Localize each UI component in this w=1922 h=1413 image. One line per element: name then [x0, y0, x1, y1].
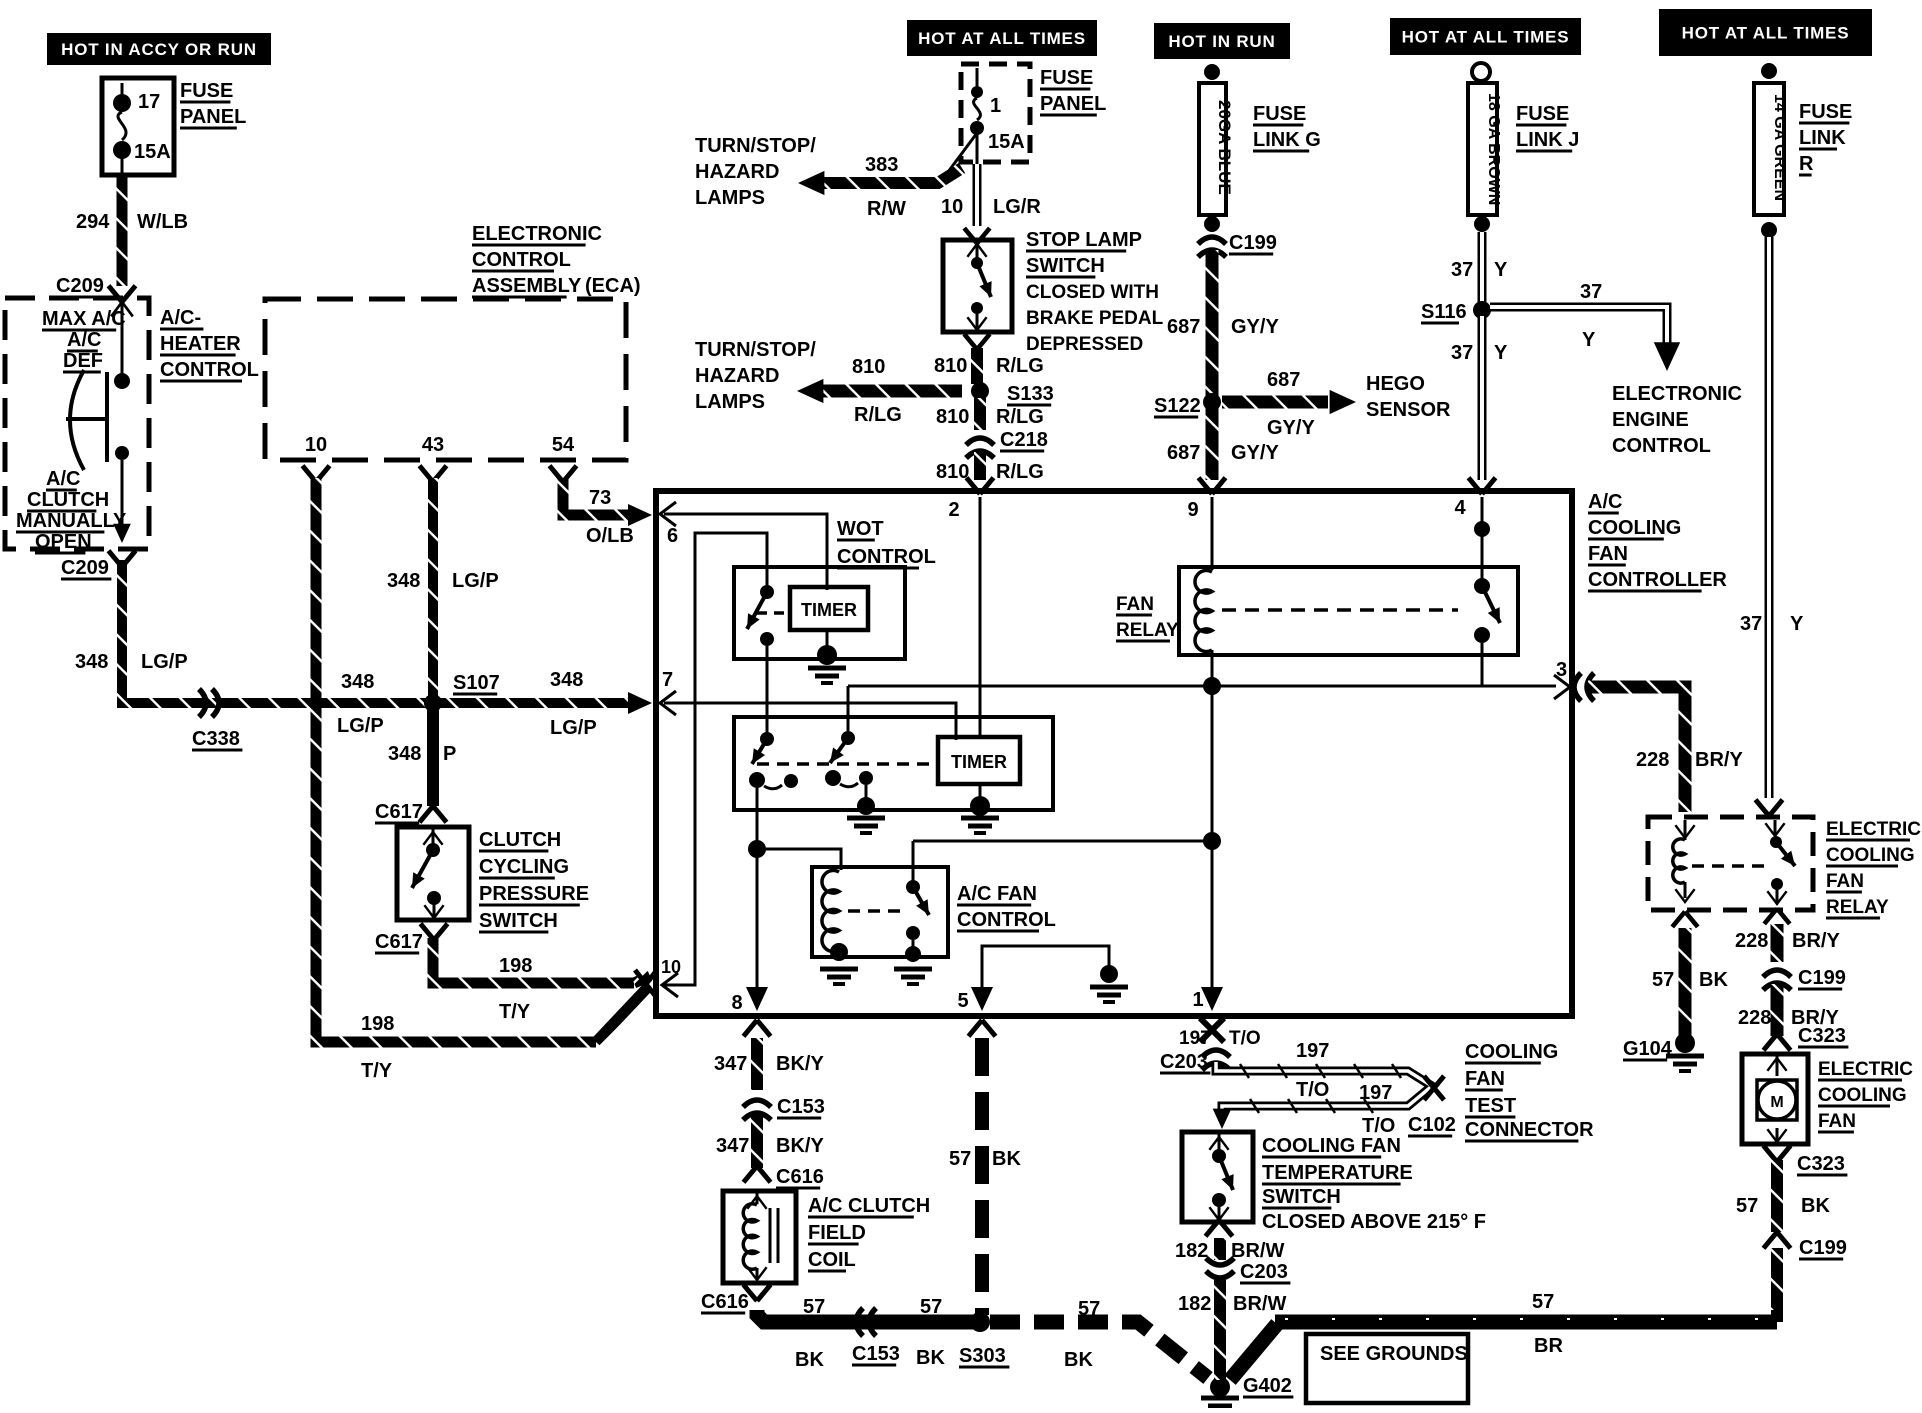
svg-text:FAN: FAN	[1588, 543, 1628, 565]
connector below pin 5	[969, 1020, 996, 1036]
svg-text:SWITCH: SWITCH	[1262, 1186, 1341, 1208]
svg-text:228: 228	[1636, 749, 1669, 771]
label 228 BR/Y (lower)	[1738, 1007, 1839, 1029]
svg-text:TEMPERATURE: TEMPERATURE	[1262, 1162, 1413, 1184]
svg-text:A/C: A/C	[67, 329, 101, 351]
svg-text:R/LG: R/LG	[996, 355, 1044, 377]
svg-text:CLUTCH: CLUTCH	[479, 829, 561, 851]
label FUSE PANEL	[180, 80, 246, 128]
svg-text:G402: G402	[1243, 1375, 1292, 1397]
svg-text:R/LG: R/LG	[854, 404, 902, 426]
connector C199 (fuse link G)	[1198, 232, 1277, 257]
svg-text:C323: C323	[1798, 1025, 1846, 1047]
wire 57 BR (bottom right run)	[1275, 1319, 1777, 1322]
label 810 R/LG (above S133)	[934, 355, 1044, 377]
splice S122	[1154, 393, 1221, 417]
connector C616 (top)	[744, 1166, 824, 1188]
svg-text:5: 5	[957, 990, 968, 1012]
label 197 T/O (loop top)	[1296, 1040, 1329, 1101]
wire 37 Y to electronic engine control	[1490, 307, 1680, 371]
svg-text:DEPRESSED: DEPRESSED	[1026, 334, 1143, 355]
svg-text:GY/Y: GY/Y	[1231, 442, 1279, 464]
wire 57 BR (right bottom)	[1771, 1248, 1783, 1322]
svg-text:6: 6	[667, 525, 678, 547]
junction node (pin 3 line)	[1203, 677, 1221, 695]
svg-text:10: 10	[941, 196, 963, 218]
svg-text:17: 17	[138, 91, 160, 113]
ground (A/C fan coil)	[820, 969, 858, 984]
timer (WOT)	[790, 587, 868, 630]
svg-text:C153: C153	[777, 1096, 825, 1118]
wire dashed 57 BK (S303 to V)	[990, 1322, 1208, 1378]
svg-text:57: 57	[1652, 969, 1674, 991]
dashed link (fan relay)	[1222, 608, 1458, 612]
svg-text:TURN/STOP/: TURN/STOP/	[695, 339, 816, 361]
svg-text:182: 182	[1178, 1293, 1211, 1315]
svg-text:BR: BR	[1534, 1335, 1563, 1357]
label 687 GY/Y (upper)	[1167, 316, 1279, 338]
svg-text:228: 228	[1735, 930, 1768, 952]
svg-text:687: 687	[1167, 316, 1200, 338]
svg-text:A/C-: A/C-	[160, 307, 201, 329]
svg-text:1: 1	[990, 95, 1001, 117]
timer (middle)	[938, 737, 1020, 784]
wire y841 line to pin1 column	[913, 841, 1212, 884]
wire 198 T/Y (from C617)	[433, 938, 650, 983]
connector C209 (bottom)	[61, 551, 136, 579]
connector C102 X	[1424, 1076, 1444, 1100]
svg-text:W/LB: W/LB	[137, 211, 188, 233]
svg-text:A/C FAN: A/C FAN	[957, 883, 1037, 905]
pin 10 arrow and wire	[661, 533, 767, 997]
wire middle relay left contact down to pin 8	[756, 788, 759, 990]
label A/C CLUTCH MANUALLY OPEN	[16, 468, 127, 553]
svg-text:197: 197	[1359, 1082, 1392, 1104]
A/C cooling fan controller box	[656, 491, 1572, 1016]
svg-text:T/O: T/O	[1362, 1115, 1395, 1137]
svg-text:57: 57	[949, 1148, 971, 1170]
fan relay coil	[1195, 570, 1212, 651]
label FAN RELAY	[1116, 594, 1179, 641]
label HEGO SENSOR	[1366, 373, 1451, 421]
svg-text:CONTROL: CONTROL	[472, 249, 571, 271]
svg-text:SWITCH: SWITCH	[479, 910, 558, 932]
svg-text:A/C: A/C	[46, 468, 80, 490]
pin 8 arrow	[731, 987, 768, 1014]
svg-text:FUSE: FUSE	[1040, 67, 1093, 89]
svg-text:WOT: WOT	[837, 518, 884, 540]
svg-text:BR/W: BR/W	[1233, 1293, 1286, 1315]
svg-text:687: 687	[1267, 369, 1300, 391]
svg-text:GY/Y: GY/Y	[1267, 417, 1315, 439]
ground (timer 2)	[961, 796, 999, 833]
svg-text:LAMPS: LAMPS	[695, 187, 765, 209]
svg-text:HOT AT ALL TIMES: HOT AT ALL TIMES	[1682, 24, 1850, 43]
wire 10 LG/R	[973, 164, 982, 226]
svg-text:14 GA GREEN: 14 GA GREEN	[1771, 94, 1788, 201]
wire 73 O/LB from ECA pin 54	[563, 478, 652, 526]
WOT control relay box	[734, 567, 905, 659]
wire 57 BK to G104	[1679, 928, 1692, 1036]
label 198 T/Y (lower)	[361, 1013, 394, 1082]
svg-text:LINK G: LINK G	[1253, 129, 1321, 151]
svg-text:ELECTRONIC: ELECTRONIC	[1612, 383, 1742, 405]
pin 2 label	[948, 497, 980, 737]
svg-text:HAZARD: HAZARD	[695, 161, 779, 183]
label STOP LAMP SWITCH ...	[1026, 229, 1164, 355]
svg-text:37: 37	[1740, 613, 1762, 635]
wire right diagonal to G402	[1230, 1324, 1277, 1380]
wire 228 BR/Y (pin3 to relay)	[1588, 687, 1685, 812]
svg-text:COOLING: COOLING	[1588, 517, 1681, 539]
label 347 BK/Y (upper)	[714, 1053, 824, 1075]
fuse panel (fuse 17, 15A)	[102, 78, 174, 180]
splice S107	[424, 672, 500, 712]
pin 5 arrow	[957, 987, 993, 1012]
svg-text:810: 810	[852, 356, 885, 378]
label 348 LG/P (left)	[75, 651, 188, 673]
svg-text:C199: C199	[1229, 232, 1277, 254]
svg-text:R: R	[1799, 153, 1814, 175]
svg-text:C209: C209	[61, 557, 109, 579]
label 57 BK (below motor)	[1736, 1195, 1830, 1217]
svg-text:S122: S122	[1154, 395, 1201, 417]
svg-text:198: 198	[361, 1013, 394, 1035]
connector C209 (top)	[56, 275, 136, 302]
pin 7 arrow and wire	[660, 669, 956, 740]
wire 383 R/W to turn/stop/hazard lamps	[798, 133, 977, 195]
A/C fan relay switch	[905, 880, 935, 962]
svg-text:15A: 15A	[134, 141, 171, 163]
svg-text:R/LG: R/LG	[996, 406, 1044, 428]
ground (middle relay)	[847, 797, 885, 833]
label ELECTRIC COOLING FAN RELAY	[1826, 819, 1921, 918]
label 810 R/LG (pin 2)	[936, 461, 1044, 483]
connector C338	[192, 689, 242, 750]
label A/C FAN CONTROL	[957, 883, 1056, 931]
svg-text:RELAY: RELAY	[1826, 897, 1889, 918]
svg-text:348: 348	[550, 669, 583, 691]
svg-text:GY/Y: GY/Y	[1231, 316, 1279, 338]
svg-text:TIMER: TIMER	[951, 752, 1007, 772]
label 182 BR/W (lower)	[1178, 1293, 1286, 1315]
svg-text:ELECTRONIC: ELECTRONIC	[472, 223, 602, 245]
label 198 T/Y (upper)	[499, 955, 532, 1023]
svg-text:383: 383	[865, 154, 898, 176]
wire 37 Y (fuse link R to relay)	[1765, 237, 1774, 798]
svg-text:T/Y: T/Y	[499, 1001, 531, 1023]
svg-text:15A: 15A	[988, 131, 1025, 153]
ECA pin 43	[420, 434, 447, 482]
svg-text:BK: BK	[1801, 1195, 1830, 1217]
svg-text:A/C CLUTCH: A/C CLUTCH	[808, 1195, 930, 1217]
connector C153	[743, 1096, 825, 1120]
middle relay right switch	[825, 731, 873, 787]
svg-text:9: 9	[1187, 499, 1198, 521]
label A/C CLUTCH FIELD COIL	[808, 1195, 930, 1271]
svg-text:T/Y: T/Y	[361, 1060, 393, 1082]
power feed label HOT IN RUN	[1154, 23, 1290, 59]
svg-text:CONTROL: CONTROL	[1612, 435, 1711, 457]
svg-text:CONNECTOR: CONNECTOR	[1465, 1119, 1594, 1141]
label COOLING FAN TEST CONNECTOR	[1465, 1041, 1594, 1141]
label 57 BK (left)	[795, 1296, 825, 1371]
wire junction to A/C fan coil	[757, 849, 841, 870]
label 37 (eec)	[1580, 281, 1602, 351]
fuse link R (14 GA GREEN)	[1754, 63, 1788, 238]
svg-text:PANEL: PANEL	[1040, 93, 1106, 115]
label C153 (bottom)	[852, 1343, 900, 1365]
connector below ECF relay (left pin)	[1672, 912, 1698, 927]
connector C323 (bottom)	[1764, 1146, 1848, 1175]
svg-text:M: M	[1770, 1094, 1783, 1111]
connector C323 (top)	[1764, 1025, 1849, 1050]
svg-text:4: 4	[1454, 497, 1466, 519]
svg-text:A/C: A/C	[1588, 491, 1622, 513]
svg-text:C199: C199	[1798, 967, 1846, 989]
svg-text:O/LB: O/LB	[586, 525, 634, 547]
junction node (y841 line)	[1203, 832, 1221, 850]
svg-text:57: 57	[1736, 1195, 1758, 1217]
svg-text:C102: C102	[1408, 1114, 1456, 1136]
wire WOT lower contact down	[766, 646, 769, 739]
svg-text:DEF: DEF	[63, 350, 103, 372]
connector below pin 8	[744, 1020, 771, 1036]
label 348 LG/P (right)	[550, 669, 597, 739]
wire 37 Y (above S116)	[1478, 232, 1487, 304]
svg-text:C616: C616	[776, 1166, 824, 1188]
ground (WOT timer)	[808, 645, 846, 683]
svg-text:FAN: FAN	[1465, 1068, 1505, 1090]
wire middle relay right contact to ground	[865, 785, 868, 800]
svg-text:18 GA BROWN: 18 GA BROWN	[1485, 93, 1502, 205]
svg-text:347: 347	[716, 1135, 749, 1157]
label 57 BK (pin 5)	[949, 1148, 1021, 1170]
connector below ECF relay (right pin)	[1764, 909, 1790, 924]
wire 198 from ECA pin 10 (long left run)	[316, 478, 647, 1042]
label 37 Y (right column)	[1740, 613, 1804, 635]
svg-text:C617: C617	[375, 801, 423, 823]
svg-text:COOLING: COOLING	[1465, 1041, 1558, 1063]
label ELECTRIC COOLING FAN	[1818, 1059, 1913, 1132]
connector below temp switch	[1206, 1220, 1233, 1236]
svg-text:228: 228	[1738, 1007, 1771, 1029]
splice S116	[1421, 301, 1491, 323]
svg-text:LG/P: LG/P	[452, 570, 499, 592]
wire 57 BK (below motor)	[1771, 1160, 1783, 1232]
svg-text:RELAY: RELAY	[1116, 620, 1179, 641]
connector at pin 3	[1574, 673, 1594, 701]
svg-text:LG/P: LG/P	[337, 715, 384, 737]
label 348 LG/P (mid)	[337, 671, 384, 737]
wire 294 W/LB	[117, 177, 128, 286]
svg-text:C323: C323	[1797, 1153, 1845, 1175]
label ELECTRONIC ENGINE CONTROL	[1612, 383, 1742, 457]
ECA pin 10	[303, 434, 330, 482]
connector into cooling fan relay	[1756, 800, 1783, 816]
wire 687 GY/Y (above S122)	[1206, 250, 1219, 396]
wire bottom left run 57 BK (C616 to S303)	[757, 1310, 973, 1322]
svg-text:57: 57	[920, 1296, 942, 1318]
svg-text:2: 2	[948, 499, 959, 521]
svg-text:182: 182	[1175, 1240, 1208, 1262]
svg-text:C203: C203	[1160, 1051, 1208, 1073]
fuse link G (20GA BLUE)	[1199, 64, 1234, 232]
svg-text:810: 810	[936, 461, 969, 483]
svg-text:CLOSED ABOVE 215° F: CLOSED ABOVE 215° F	[1262, 1211, 1486, 1233]
ground G104	[1623, 1033, 1704, 1071]
connector into controller pin 9	[1199, 478, 1226, 494]
label FUSE PANEL (2)	[1040, 67, 1106, 115]
svg-text:BK: BK	[1699, 969, 1728, 991]
svg-text:P: P	[443, 743, 456, 765]
wire pin7/timer2 junction line	[848, 686, 1212, 732]
svg-text:T/O: T/O	[1296, 1079, 1329, 1101]
svg-text:MANUALLY: MANUALLY	[16, 510, 127, 532]
connector C153 (bottom)	[856, 1308, 876, 1336]
wire 37 Y (below S116)	[1478, 316, 1487, 480]
svg-text:43: 43	[422, 434, 444, 456]
label 57 BK (dashes)	[1064, 1298, 1100, 1371]
svg-text:C616: C616	[701, 1291, 749, 1313]
svg-text:TEST: TEST	[1465, 1095, 1516, 1117]
label 37 Y (above S116)	[1451, 259, 1508, 281]
fan controller relay box (middle)	[734, 717, 1053, 810]
label 182 BR/W (upper)	[1175, 1240, 1284, 1262]
svg-text:C338: C338	[192, 728, 240, 750]
power feed label HOT AT ALL TIMES (fuse link R)	[1659, 9, 1872, 56]
label TURN/STOP/HAZARD LAMPS (lower)	[695, 339, 816, 413]
svg-text:CONTROL: CONTROL	[957, 909, 1056, 931]
svg-text:BR/Y: BR/Y	[1695, 749, 1743, 771]
svg-text:COOLING: COOLING	[1826, 845, 1915, 866]
svg-text:S133: S133	[1007, 383, 1054, 405]
dashed link to timer (middle relay)	[757, 762, 935, 766]
svg-text:CLOSED WITH: CLOSED WITH	[1026, 282, 1159, 303]
fan relay switch	[1474, 578, 1506, 643]
svg-text:C209: C209	[56, 275, 104, 297]
svg-text:CLUTCH: CLUTCH	[27, 489, 109, 511]
A/C fan control relay box	[812, 867, 948, 957]
connector C199 (bottom right)	[1764, 1232, 1847, 1259]
wire fan relay lower contact to pin3 line	[1481, 643, 1484, 686]
svg-text:294: 294	[76, 211, 110, 233]
label 228 BR/Y (upper)	[1636, 749, 1743, 771]
label 348 LG/P (pin 43)	[387, 570, 499, 592]
stop lamp switch	[943, 240, 1012, 332]
function selector switch	[66, 300, 133, 470]
connector C203 (upper)	[1160, 1050, 1230, 1073]
connector into controller pin 2	[967, 478, 994, 494]
svg-text:57: 57	[803, 1296, 825, 1318]
connector below stop lamp switch	[964, 334, 990, 349]
A/C clutch field coil box	[723, 1191, 796, 1283]
label 73 O/LB	[586, 487, 634, 547]
label CLUTCH CYCLING PRESSURE SWITCH	[479, 829, 589, 932]
svg-text:FUSE: FUSE	[1253, 103, 1306, 125]
svg-text:R/LG: R/LG	[996, 461, 1044, 483]
svg-text:LINK J: LINK J	[1516, 129, 1579, 151]
label 10 LG/R	[941, 196, 1041, 218]
svg-text:348: 348	[388, 743, 421, 765]
svg-text:687: 687	[1167, 442, 1200, 464]
pin 9 label	[1187, 497, 1212, 570]
svg-text:BR/W: BR/W	[1231, 1240, 1284, 1262]
label 197 T/O (loop bottom)	[1359, 1082, 1395, 1137]
svg-text:BRAKE PEDAL: BRAKE PEDAL	[1026, 308, 1164, 329]
connector into controller pin 4	[1469, 478, 1496, 494]
svg-text:LAMPS: LAMPS	[695, 391, 765, 413]
svg-text:10: 10	[305, 434, 327, 456]
label 57 BK (mid)	[916, 1296, 945, 1369]
electric cooling fan motor box	[1742, 1054, 1808, 1144]
fuse link J (18 GA BROWN)	[1468, 63, 1502, 232]
connector into pin 10	[635, 970, 657, 998]
wire coil bottom to pin 1	[1211, 650, 1214, 990]
electric cooling fan relay dashed box	[1648, 817, 1813, 910]
svg-text:197: 197	[1296, 1040, 1329, 1062]
wire 347 BK/Y (lower)	[751, 1114, 763, 1168]
svg-text:MAX A/C: MAX A/C	[42, 308, 126, 330]
svg-text:198: 198	[499, 955, 532, 977]
svg-text:C199: C199	[1799, 1237, 1847, 1259]
pin 4 label	[1454, 497, 1490, 588]
svg-text:CONTROLLER: CONTROLLER	[1588, 569, 1727, 591]
svg-text:FUSE: FUSE	[1799, 101, 1852, 123]
svg-text:G104: G104	[1623, 1038, 1673, 1060]
label 810 R/LG (arrow)	[852, 356, 902, 426]
wire timer to ground (WOT)	[826, 630, 829, 650]
ground (pin 5 stub)	[1090, 965, 1128, 1002]
svg-text:SWITCH: SWITCH	[1026, 255, 1105, 277]
svg-text:R/W: R/W	[867, 198, 906, 220]
svg-text:LG/P: LG/P	[141, 651, 188, 673]
label 687 GY/Y (lower)	[1167, 442, 1279, 464]
svg-text:57: 57	[1532, 1291, 1554, 1313]
A/C-heater control dashed box	[5, 298, 149, 549]
svg-text:(ECA): (ECA)	[585, 275, 641, 297]
svg-text:810: 810	[936, 406, 969, 428]
wire 810 R/LG to turn/stop/hazard lamps	[797, 379, 962, 403]
wire 348 arrow into pin 7	[628, 692, 652, 714]
wire 348 LG/P (left vertical)	[122, 560, 640, 703]
ground G402	[1201, 1375, 1293, 1413]
svg-text:HOT IN ACCY OR RUN: HOT IN ACCY OR RUN	[61, 40, 257, 59]
svg-text:C153: C153	[852, 1343, 900, 1365]
label FUSE LINK R	[1799, 101, 1852, 175]
label C102	[1408, 1114, 1456, 1136]
splice S303	[959, 1312, 1009, 1367]
svg-text:SENSOR: SENSOR	[1366, 399, 1451, 421]
svg-text:S303: S303	[959, 1345, 1006, 1367]
svg-text:Y: Y	[1582, 329, 1596, 351]
svg-text:HOT AT ALL TIMES: HOT AT ALL TIMES	[1402, 28, 1570, 47]
power feed label HOT AT ALL TIMES (fuse panel)	[907, 20, 1097, 56]
electronic control assembly (ECA) dashed box	[265, 299, 626, 460]
cooling fan temperature switch	[1182, 1132, 1253, 1222]
label 57 BK (G104)	[1652, 969, 1728, 991]
label 228 BR/Y (mid)	[1735, 930, 1840, 952]
svg-text:37: 37	[1580, 281, 1602, 303]
wire 348 LG/P from ECA pin 43	[428, 478, 438, 698]
label 197 T/O (pin1)	[1179, 1028, 1261, 1049]
svg-text:BK/Y: BK/Y	[776, 1135, 824, 1157]
connector into stop lamp switch	[964, 228, 990, 243]
svg-text:COOLING: COOLING	[1818, 1085, 1907, 1106]
wire 228 BR/Y (to C323)	[1771, 984, 1784, 1036]
wire 810 R/LG (below S133)	[974, 398, 986, 430]
svg-text:SEE GROUNDS: SEE GROUNDS	[1320, 1343, 1468, 1365]
